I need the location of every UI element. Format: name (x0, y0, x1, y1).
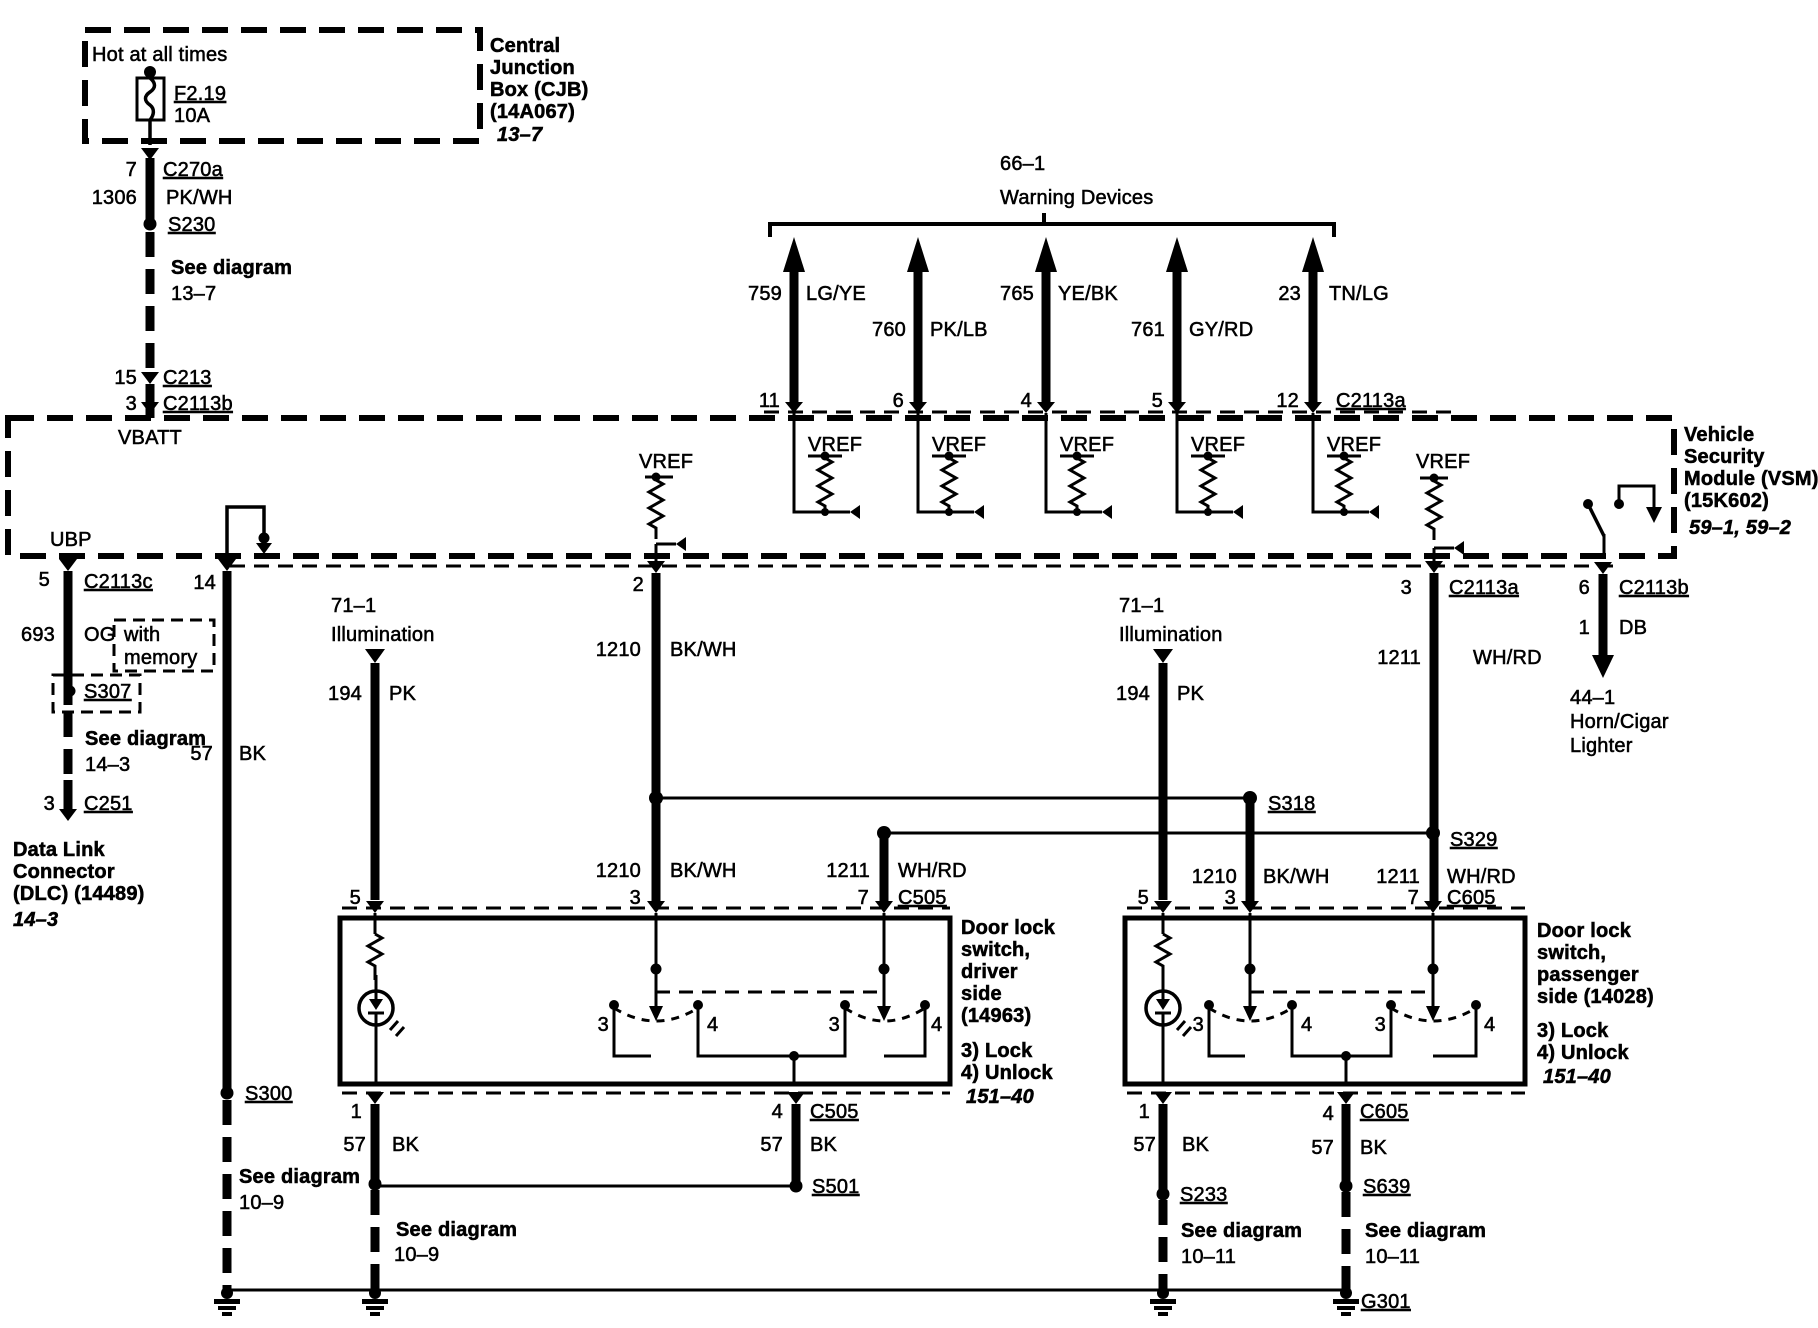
svg-text:10A: 10A (174, 105, 211, 127)
connector C2113b arrow, pin 3 (141, 402, 159, 414)
splice S329 (1426, 826, 1440, 840)
resistor VREF pull-up pin 5 (1177, 413, 1245, 519)
svg-text:S318: S318 (1268, 793, 1316, 815)
svg-text:12: 12 (1276, 390, 1299, 412)
svg-text:Illumination: Illumination (331, 624, 435, 646)
svg-text:1210: 1210 (1192, 866, 1237, 888)
svg-text:Data Link: Data Link (13, 839, 105, 861)
svg-text:6: 6 (1579, 577, 1590, 599)
svg-text:C505: C505 (898, 887, 947, 909)
svg-text:5: 5 (39, 569, 50, 591)
wire arrow 765 YE/BK pin 4 (1035, 237, 1057, 413)
wire 57 BK passenger pin 1 (1159, 1104, 1168, 1194)
svg-text:switch,: switch, (961, 939, 1030, 961)
svg-text:(15K602): (15K602) (1684, 490, 1769, 512)
svg-text:VREF: VREF (932, 434, 986, 456)
splice S639 (1340, 1180, 1353, 1193)
node S329 tap for driver WH/RD (877, 826, 891, 840)
svg-text:59–1, 59–2: 59–1, 59–2 (1689, 517, 1791, 539)
svg-text:4: 4 (1301, 1014, 1312, 1036)
ground symbol center-left (362, 1287, 388, 1316)
resistor VREF pull-up pin 3 (WH/RD output) (1416, 451, 1470, 555)
splice S233 (1157, 1188, 1170, 1201)
svg-text:C270a: C270a (163, 159, 224, 181)
ground bus wire (227, 1289, 1346, 1292)
svg-text:1: 1 (351, 1101, 362, 1123)
svg-text:Door lock: Door lock (961, 917, 1056, 939)
svg-text:WH/RD: WH/RD (1447, 866, 1516, 888)
svg-text:1211: 1211 (1376, 866, 1420, 888)
wire 1 DB to horn/cigar lighter (1592, 574, 1614, 678)
driver switch contact labels (598, 1014, 943, 1036)
svg-text:G301: G301 (1361, 1291, 1411, 1313)
svg-text:See diagram: See diagram (85, 728, 206, 750)
svg-text:3: 3 (598, 1014, 609, 1036)
pin numbers 11 6 4 5 12 (759, 390, 1299, 412)
connector C213 arrow, pin 15 (141, 372, 159, 384)
svg-text:759: 759 (748, 283, 782, 305)
wire S318 net to passenger pin 3 (656, 797, 1250, 800)
svg-text:760: 760 (872, 319, 906, 341)
with memory dashed box (114, 620, 214, 671)
wire arrow 761 GY/RD pin 5 (1166, 237, 1188, 413)
node junction on driver BK wire (369, 1178, 382, 1191)
driver C505 pin labels (350, 887, 947, 909)
svg-text:14–3: 14–3 (85, 754, 130, 776)
splice S300 (221, 1087, 234, 1100)
svg-text:VREF: VREF (1191, 434, 1245, 456)
driver illumination lamp (359, 975, 404, 1084)
svg-text:switch,: switch, (1537, 942, 1606, 964)
Vehicle Security Module (VSM) dashed enclosure (8, 418, 1674, 556)
svg-text:1211: 1211 (1377, 647, 1421, 669)
svg-text:3: 3 (1193, 1014, 1204, 1036)
svg-text:1211: 1211 (826, 860, 870, 882)
svg-text:UBP: UBP (50, 529, 92, 551)
svg-text:13–7: 13–7 (171, 283, 216, 305)
svg-text:C605: C605 (1360, 1101, 1409, 1123)
svg-text:Door lock: Door lock (1537, 920, 1632, 942)
svg-text:See diagram: See diagram (396, 1219, 517, 1241)
svg-text:BK/WH: BK/WH (670, 860, 737, 882)
wire 1210 BK/WH S318 to passenger pin 3 (1246, 798, 1255, 905)
svg-text:(14A067): (14A067) (490, 101, 575, 123)
Central Junction Box (CJB) dashed enclosure (85, 30, 480, 141)
connector dashed line below VSM (230, 565, 1615, 568)
splice S307 dashed box (53, 675, 140, 712)
svg-text:PK: PK (1177, 683, 1205, 705)
wire S639 to ground dashed (1342, 1192, 1351, 1290)
svg-text:66–1: 66–1 (1000, 153, 1045, 175)
svg-text:See diagram: See diagram (1365, 1220, 1486, 1242)
svg-text:1210: 1210 (596, 639, 641, 661)
svg-text:VREF: VREF (639, 451, 693, 473)
svg-text:4: 4 (1021, 390, 1032, 412)
svg-text:VBATT: VBATT (118, 427, 182, 449)
svg-text:3) Lock: 3) Lock (1537, 1020, 1609, 1042)
svg-text:S329: S329 (1450, 829, 1498, 851)
svg-text:S639: S639 (1363, 1176, 1411, 1198)
svg-text:5: 5 (1152, 390, 1163, 412)
wire S230 to C213 (see diagram 13-7, dashed) (146, 232, 155, 368)
svg-text:57: 57 (1133, 1134, 1156, 1156)
svg-text:Central: Central (490, 35, 560, 57)
svg-text:3: 3 (630, 887, 641, 909)
svg-text:57: 57 (343, 1134, 366, 1156)
Door lock switch passenger side box (1125, 918, 1525, 1084)
svg-text:VREF: VREF (1060, 434, 1114, 456)
svg-text:23: 23 (1278, 283, 1301, 305)
driver box lower connector dashed line (342, 1092, 950, 1095)
svg-text:See diagram: See diagram (1181, 1220, 1302, 1242)
connector C2113a dashed line (top) (764, 411, 1455, 414)
svg-text:4: 4 (772, 1101, 783, 1123)
svg-text:693: 693 (21, 624, 55, 646)
svg-text:BK: BK (239, 743, 267, 765)
passenger box lower connector dashed line (1127, 1092, 1525, 1095)
svg-text:side: side (961, 983, 1002, 1005)
svg-text:OG: OG (84, 624, 116, 646)
splice S318 (1243, 791, 1257, 805)
svg-text:TN/LG: TN/LG (1329, 283, 1389, 305)
Door lock switch driver side box (340, 918, 950, 1084)
svg-text:4) Unlock: 4) Unlock (961, 1062, 1053, 1084)
svg-text:7: 7 (126, 159, 137, 181)
resistor VREF pull-up pin 12 (1313, 413, 1381, 519)
svg-text:Warning Devices: Warning Devices (1000, 187, 1153, 209)
connector arrows passenger pins 5 3 7 (1154, 901, 1172, 913)
svg-text:3: 3 (829, 1014, 840, 1036)
svg-text:S230: S230 (168, 214, 216, 236)
wire labels warning devices (748, 283, 1389, 341)
svg-text:4: 4 (931, 1014, 942, 1036)
svg-text:3: 3 (126, 393, 137, 415)
svg-text:Connector: Connector (13, 861, 115, 883)
passenger lock switch pole B (1346, 913, 1481, 1056)
svg-text:BK: BK (810, 1134, 838, 1156)
connector pin 2 arrow (647, 561, 665, 573)
resistor VREF pull-up pin 2 (BK/WH output) (639, 451, 693, 551)
svg-text:1: 1 (1139, 1101, 1150, 1123)
wire 57 BK driver pin 4 to S501 (792, 1104, 801, 1184)
svg-text:57: 57 (190, 743, 213, 765)
connector C270a arrow (141, 148, 159, 160)
ground symbol left (214, 1287, 240, 1316)
driver box title (961, 917, 1056, 1108)
svg-text:14–3: 14–3 (13, 909, 58, 931)
wire arrow 760 PK/LB pin 6 (907, 237, 929, 413)
svg-text:Lighter: Lighter (1570, 735, 1633, 757)
wire 57 BK driver pin 1 (371, 1104, 380, 1184)
svg-text:C2113a: C2113a (1336, 390, 1406, 412)
connector arrow driver pin 4 C505 (787, 1092, 805, 1104)
wire 1211 WH/RD from pin 3 (1433, 548, 1436, 561)
wire S329 net to passenger WH/RD (884, 832, 1433, 835)
svg-text:See diagram: See diagram (239, 1166, 360, 1188)
svg-text:14: 14 (193, 572, 216, 594)
svg-text:7: 7 (1408, 887, 1419, 909)
svg-text:3: 3 (1225, 887, 1236, 909)
svg-text:BK: BK (1360, 1137, 1388, 1159)
svg-text:driver: driver (961, 961, 1018, 983)
svg-text:15: 15 (114, 367, 137, 389)
passenger lock switch pole A (1204, 913, 1346, 1056)
svg-text:194: 194 (1116, 683, 1150, 705)
connector arrow passenger pin 1 (1154, 1092, 1172, 1104)
svg-text:DB: DB (1619, 617, 1647, 639)
svg-text:3: 3 (44, 793, 55, 815)
resistor VREF pull-up pin 4 (1046, 413, 1114, 519)
svg-text:3: 3 (1401, 577, 1412, 599)
ground symbol passenger 1 (1150, 1287, 1176, 1316)
svg-text:Horn/Cigar: Horn/Cigar (1570, 711, 1669, 733)
wire S300 to ground (see diagram, dashed) (223, 1100, 232, 1290)
svg-text:memory: memory (124, 647, 197, 669)
driver switch linkage dashed (656, 991, 884, 994)
wire driver pin1 to ground (see diagram, dashed) (371, 1190, 380, 1290)
label 71-1 Illumination (driver) (331, 595, 435, 646)
CJB title text (490, 35, 588, 146)
connector pin 6 C2113b arrow (1594, 562, 1612, 574)
svg-text:3) Lock: 3) Lock (961, 1040, 1033, 1062)
wire into VSM VBATT (146, 384, 155, 418)
svg-text:S307: S307 (84, 681, 132, 703)
svg-text:BK/WH: BK/WH (670, 639, 737, 661)
svg-text:S300: S300 (245, 1083, 293, 1105)
driver illumination resistor (368, 913, 382, 980)
svg-text:side (14028): side (14028) (1537, 986, 1654, 1008)
connector arrow driver pin 1 (366, 1092, 384, 1104)
resistor VREF pull-up pin 11 (794, 413, 862, 519)
svg-text:PK/LB: PK/LB (930, 319, 988, 341)
svg-text:4: 4 (1484, 1014, 1495, 1036)
passenger illumination lamp (1146, 975, 1191, 1084)
connector pin 14 arrow (218, 559, 236, 571)
svg-text:BK/WH: BK/WH (1263, 866, 1330, 888)
svg-text:Hot at all times: Hot at all times (92, 44, 227, 66)
connector arrows driver pins 5 3 7 (366, 901, 384, 913)
warning devices bracket (770, 224, 1334, 237)
svg-text:10–9: 10–9 (239, 1192, 284, 1214)
node S318 tap on BK/WH (649, 791, 663, 805)
svg-text:44–1: 44–1 (1570, 687, 1615, 709)
svg-text:(14963): (14963) (961, 1005, 1031, 1027)
svg-text:BK: BK (1182, 1134, 1210, 1156)
svg-text:Vehicle: Vehicle (1684, 424, 1754, 446)
svg-text:3: 3 (1375, 1014, 1386, 1036)
wire to splice S501 (375, 1185, 793, 1188)
svg-text:BK: BK (392, 1134, 420, 1156)
driver node to pin 4 (789, 1051, 799, 1061)
VSM internal jumper at pin 14 (227, 507, 272, 556)
wire S233 to ground dashed (1159, 1200, 1168, 1290)
passenger switch contact labels (1193, 1014, 1496, 1036)
svg-text:71–1: 71–1 (331, 595, 376, 617)
wire 194 PK driver illumination (365, 649, 385, 900)
wire arrow 759 LG/YE pin 11 (783, 237, 805, 413)
svg-text:C505: C505 (810, 1101, 859, 1123)
svg-text:GY/RD: GY/RD (1189, 319, 1253, 341)
svg-text:151–40: 151–40 (966, 1086, 1034, 1108)
svg-text:WH/RD: WH/RD (898, 860, 967, 882)
svg-text:(DLC) (14489): (DLC) (14489) (13, 883, 145, 905)
svg-text:Security: Security (1684, 446, 1765, 468)
fuse F2.19 10A (137, 66, 164, 145)
driver lock switch pole A (609, 913, 794, 1056)
svg-text:VREF: VREF (1416, 451, 1470, 473)
passenger switch linkage dashed (1250, 991, 1433, 994)
svg-text:C251: C251 (84, 793, 133, 815)
svg-text:151–40: 151–40 (1543, 1066, 1611, 1088)
passenger C605 pin labels (1138, 887, 1496, 909)
svg-text:194: 194 (328, 683, 362, 705)
svg-text:Module (VSM): Module (VSM) (1684, 468, 1818, 490)
svg-text:YE/BK: YE/BK (1058, 283, 1118, 305)
driver door lock switch connector C505 dashed line (342, 907, 950, 910)
wire 194 PK passenger illumination (1153, 649, 1173, 900)
svg-text:13–7: 13–7 (497, 124, 543, 146)
svg-text:C213: C213 (163, 367, 212, 389)
svg-text:Box (CJB): Box (CJB) (490, 79, 588, 101)
svg-text:71–1: 71–1 (1119, 595, 1164, 617)
wire 57 BK from pin 14 (223, 571, 232, 1090)
svg-text:6: 6 (893, 390, 904, 412)
wire arrow 23 TN/LG pin 12 (1302, 237, 1324, 413)
svg-text:765: 765 (1000, 283, 1034, 305)
svg-text:11: 11 (759, 390, 780, 412)
svg-text:4) Unlock: 4) Unlock (1537, 1042, 1629, 1064)
wire 57 BK passenger pin 4 (1342, 1104, 1351, 1186)
svg-text:4: 4 (1323, 1103, 1334, 1125)
svg-text:C2113b: C2113b (163, 393, 233, 415)
splice S230 (144, 218, 157, 231)
svg-text:7: 7 (858, 887, 869, 909)
svg-text:10–11: 10–11 (1365, 1246, 1420, 1268)
wire S307 to C251 (see diagram, dashed) (64, 712, 73, 780)
svg-text:5: 5 (1138, 887, 1149, 909)
pin 7 label C270a (92, 159, 233, 209)
wire 693 OG (64, 571, 73, 705)
driver lock switch pole B (794, 913, 930, 1056)
svg-text:10–9: 10–9 (394, 1244, 439, 1266)
svg-text:passenger: passenger (1537, 964, 1639, 986)
resistor VREF pull-up pin 6 (918, 413, 986, 519)
VSM title text (1684, 424, 1818, 539)
Data Link Connector (DLC) label (13, 839, 145, 931)
svg-text:WH/RD: WH/RD (1473, 647, 1542, 669)
svg-text:1306: 1306 (92, 187, 137, 209)
VSM internal switch (horn relay contact) (1583, 486, 1662, 556)
label 44-1 Horn/Cigar Lighter (1570, 687, 1669, 757)
svg-text:1: 1 (1579, 617, 1590, 639)
svg-text:Junction: Junction (490, 57, 575, 79)
svg-text:1210: 1210 (596, 860, 641, 882)
svg-text:57: 57 (1311, 1137, 1334, 1159)
svg-text:C2113c: C2113c (84, 571, 153, 593)
svg-text:10–11: 10–11 (1181, 1246, 1236, 1268)
svg-text:761: 761 (1131, 319, 1165, 341)
connector pin 3 C2113a arrow (1425, 561, 1443, 573)
svg-text:S233: S233 (1180, 1184, 1228, 1206)
passenger door lock switch connector C605 dashed line (1127, 907, 1525, 910)
svg-text:Illumination: Illumination (1119, 624, 1223, 646)
svg-text:LG/YE: LG/YE (806, 283, 866, 305)
svg-text:PK/WH: PK/WH (166, 187, 233, 209)
passenger box title (1537, 920, 1654, 1088)
ground G301 (1333, 1287, 1359, 1316)
Data Link Connector wire: connector C2113c arrow pin 5 (59, 559, 77, 571)
passenger node to pin 4 (1341, 1051, 1351, 1061)
wire C213 to C2113b (146, 384, 155, 400)
svg-text:VREF: VREF (1327, 434, 1381, 456)
svg-text:C605: C605 (1447, 887, 1496, 909)
svg-text:2: 2 (633, 574, 644, 596)
wire 1211 WH/RD to driver pin 7 (880, 833, 889, 905)
svg-text:VREF: VREF (808, 434, 862, 456)
svg-text:4: 4 (707, 1014, 718, 1036)
svg-text:C2113b: C2113b (1619, 577, 1689, 599)
svg-text:S501: S501 (812, 1176, 860, 1198)
label 71-1 Illumination (passenger) (1119, 595, 1223, 646)
svg-text:PK: PK (389, 683, 417, 705)
svg-text:F2.19: F2.19 (174, 83, 226, 105)
splice S501 (790, 1180, 803, 1193)
wire 1210 BK/WH from pin 2 (655, 544, 658, 561)
connector arrow passenger pin 4 C605 (1337, 1092, 1355, 1104)
wire fuse to S230, PK/WH 1306 (146, 158, 155, 220)
connector C251 arrow, pin 3 (59, 809, 77, 821)
svg-text:See diagram: See diagram (171, 257, 292, 279)
svg-text:5: 5 (350, 887, 361, 909)
svg-text:57: 57 (760, 1134, 783, 1156)
svg-text:C2113a: C2113a (1449, 577, 1519, 599)
svg-text:with: with (123, 624, 160, 646)
passenger illumination resistor (1156, 913, 1170, 980)
